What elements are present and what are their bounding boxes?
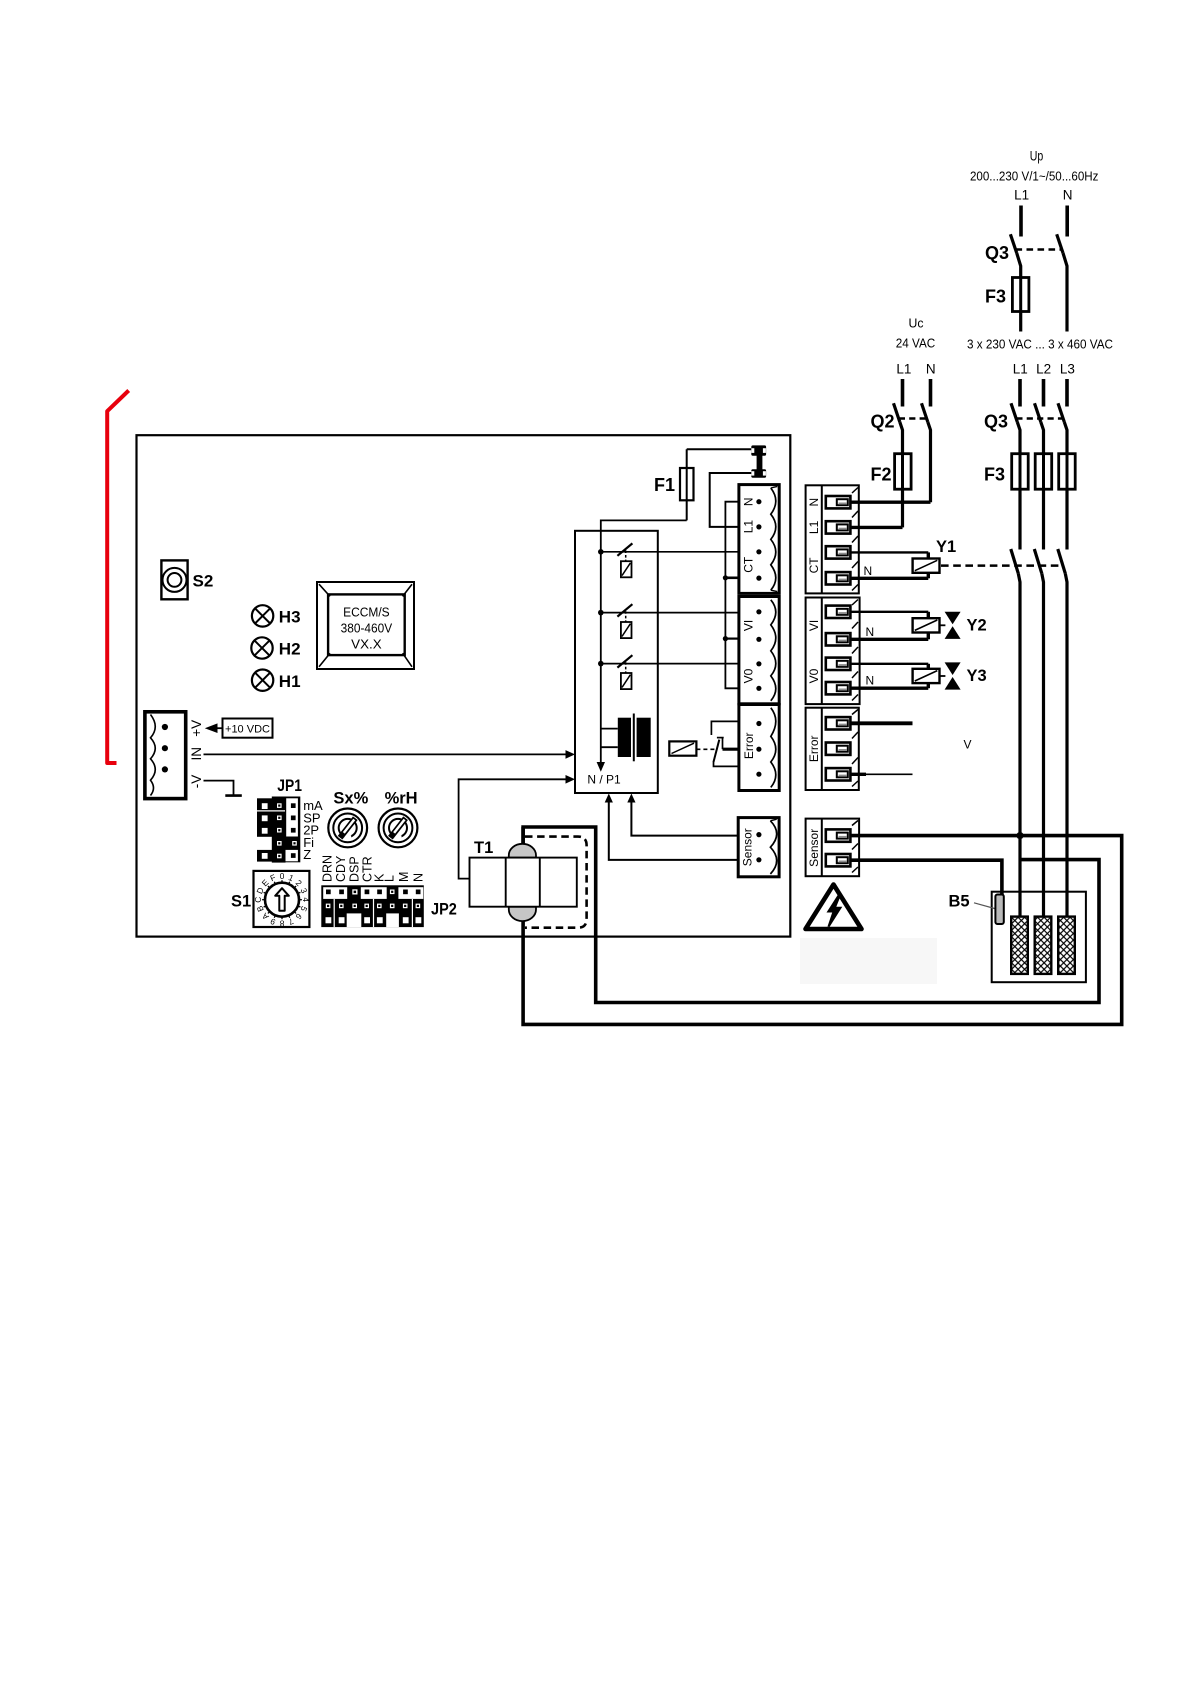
node junction relay 2 bbox=[598, 610, 604, 616]
svg-text:3 x 230 VAC ... 3 x 460 VAC: 3 x 230 VAC ... 3 x 460 VAC bbox=[967, 337, 1113, 352]
net label three phase supply bbox=[967, 337, 1113, 377]
heater element 2 bbox=[1035, 917, 1052, 974]
svg-text:Q2: Q2 bbox=[871, 412, 895, 432]
node CT-N label N bbox=[864, 564, 873, 578]
svg-text:+10 VDC: +10 VDC bbox=[225, 723, 270, 735]
svg-text:N: N bbox=[807, 498, 821, 507]
svg-text:CDY: CDY bbox=[334, 855, 348, 882]
external terminal block Error bbox=[806, 708, 859, 790]
svg-text:F1: F1 bbox=[654, 475, 675, 495]
error relay coil bbox=[669, 741, 716, 755]
node N bus to VI-N bbox=[723, 636, 728, 641]
internal transformer winding bars bbox=[601, 714, 651, 762]
svg-text:Y2: Y2 bbox=[967, 617, 987, 635]
pushbutton S2 bbox=[161, 560, 213, 599]
wire terminal N to Q2 neutral bbox=[850, 501, 930, 504]
svg-text:Sx%: Sx% bbox=[333, 790, 368, 808]
svg-text:Sensor: Sensor bbox=[741, 828, 755, 866]
dashed enclosure around T1 secondary bbox=[525, 837, 587, 928]
external terminal block VI/V0 bbox=[806, 598, 860, 705]
svg-text:8: 8 bbox=[279, 919, 284, 929]
svg-text:ECCM/S: ECCM/S bbox=[343, 605, 390, 620]
sensor wire arrows into switch block bottom bbox=[605, 794, 739, 860]
svg-text:Z: Z bbox=[303, 847, 311, 862]
wire -V with signal ground bar bbox=[204, 781, 242, 796]
svg-text:V0: V0 bbox=[807, 668, 821, 683]
fuse F1 bbox=[654, 449, 694, 520]
heater enclosure box bbox=[992, 892, 1086, 983]
svg-text:B5: B5 bbox=[949, 893, 970, 911]
svg-text:24 VAC: 24 VAC bbox=[896, 336, 936, 351]
svg-text:DRN: DRN bbox=[320, 855, 334, 882]
svg-text:N: N bbox=[412, 873, 426, 882]
wire Up N bbox=[1065, 206, 1069, 237]
mains jumper link to terminal N bbox=[751, 445, 766, 477]
svg-text:L1: L1 bbox=[807, 520, 821, 534]
node junction relay 3 bbox=[598, 661, 604, 667]
module label plate ECCM/S 380-460V VX.X bbox=[317, 582, 414, 669]
lamp H1 bbox=[252, 670, 301, 692]
svg-text:S1: S1 bbox=[231, 893, 251, 911]
svg-text:N: N bbox=[864, 564, 873, 578]
node junction relay 1 bbox=[598, 549, 604, 555]
fuse group F3 three phase bbox=[984, 454, 1075, 550]
svg-text:N: N bbox=[741, 497, 755, 506]
actuator coil Y1 bbox=[913, 538, 957, 578]
svg-text:N: N bbox=[866, 625, 875, 639]
node N bus to CT-N bbox=[723, 575, 728, 580]
wire Uc L1 bbox=[901, 379, 905, 407]
internal terminal block Sensor bbox=[738, 818, 779, 877]
svg-text:N: N bbox=[926, 361, 936, 376]
lamp H3 bbox=[252, 605, 301, 626]
valve actuator Y3 bbox=[913, 662, 987, 689]
svg-text:Error: Error bbox=[807, 735, 821, 762]
node VI-N label N bbox=[866, 625, 875, 639]
net label Uc 24 VAC bbox=[896, 316, 936, 377]
svg-text:V0: V0 bbox=[741, 668, 755, 683]
board outline bbox=[137, 435, 791, 936]
svg-text:Up: Up bbox=[1030, 149, 1044, 164]
faint erased watermark area bbox=[800, 938, 937, 984]
svg-text:F3: F3 bbox=[985, 287, 1006, 307]
svg-text:H2: H2 bbox=[279, 640, 301, 659]
svg-text:L3: L3 bbox=[1060, 361, 1075, 376]
input connector +V / IN / -V bbox=[145, 712, 204, 799]
internal terminal block VI/V0 bbox=[739, 597, 779, 704]
wire terminal VI to Y2 bbox=[850, 611, 928, 613]
svg-text:IN: IN bbox=[189, 747, 204, 761]
svg-text:L1: L1 bbox=[1014, 188, 1029, 203]
wire terminal L1 to F2 bbox=[850, 526, 902, 529]
svg-text:CT: CT bbox=[741, 556, 755, 573]
lamp H2 bbox=[251, 637, 300, 658]
jumper block JP2 bbox=[320, 855, 457, 927]
rotary switch S1 bbox=[231, 871, 311, 929]
wire terminal CT to Y1 bbox=[850, 551, 928, 553]
svg-text:DSP: DSP bbox=[347, 856, 361, 882]
svg-text:H3: H3 bbox=[279, 608, 301, 627]
svg-text:%rH: %rH bbox=[385, 790, 418, 808]
svg-text:N: N bbox=[1063, 188, 1073, 203]
wire T1 secondary top lead bbox=[521, 827, 525, 844]
wire Error output bottom bbox=[850, 773, 912, 776]
wire Error output top bbox=[850, 721, 912, 725]
damper end switch contacts driven by Y1 bbox=[1011, 549, 1067, 917]
svg-text:380-460V: 380-460V bbox=[341, 621, 393, 636]
svg-text:F2: F2 bbox=[871, 465, 892, 485]
wire terminal VI-N to Y2 bbox=[850, 638, 928, 641]
potentiometer %rH bbox=[379, 790, 418, 848]
svg-text:+V: +V bbox=[189, 720, 204, 737]
svg-text:V: V bbox=[964, 738, 972, 752]
svg-text:Y3: Y3 bbox=[967, 667, 987, 685]
switch block N/P1 outline bbox=[575, 531, 658, 793]
svg-text:JP2: JP2 bbox=[431, 901, 457, 919]
svg-text:Sensor: Sensor bbox=[807, 829, 821, 867]
svg-text:L1: L1 bbox=[1013, 361, 1028, 376]
svg-text:CT: CT bbox=[807, 557, 821, 574]
svg-text:200...230 V/1~/50...60Hz: 200...230 V/1~/50...60Hz bbox=[970, 169, 1099, 184]
svg-text:4: 4 bbox=[301, 897, 311, 902]
wire sensor loop through current transformer (outer) bbox=[523, 836, 1122, 1025]
svg-text:Q3: Q3 bbox=[984, 412, 1008, 432]
wire Up L1 bbox=[1019, 206, 1023, 237]
breaker Q3 three phase bbox=[984, 379, 1067, 454]
heater element 1 bbox=[1011, 917, 1028, 974]
wire F1 to mains link bbox=[687, 448, 752, 450]
svg-text:0: 0 bbox=[280, 871, 285, 881]
svg-text:T1: T1 bbox=[474, 839, 493, 857]
svg-text:VX.X: VX.X bbox=[351, 637, 382, 652]
svg-text:N / P1: N / P1 bbox=[587, 773, 621, 787]
svg-text:M: M bbox=[397, 872, 411, 882]
svg-text:C: C bbox=[253, 897, 263, 903]
temperature sensor B5 bbox=[949, 893, 1004, 925]
internal terminal block N/L1/CT bbox=[739, 485, 779, 594]
warning triangle with lightning bolt bbox=[806, 885, 862, 930]
heater element 3 bbox=[1058, 917, 1075, 974]
relay contact K2 (VI output) bbox=[601, 604, 739, 638]
wire IN analog input to switch block bbox=[204, 750, 576, 759]
wire T1 primary from -V/T1 feedback into switch block bbox=[459, 775, 575, 879]
breaker Q2 bbox=[871, 403, 931, 502]
svg-text:L2: L2 bbox=[1036, 361, 1051, 376]
node L1 tap junction bbox=[1016, 832, 1023, 839]
svg-text:L: L bbox=[383, 875, 397, 882]
wire T1 secondary return loop (inner) bbox=[523, 827, 1099, 1003]
svg-text:Y1: Y1 bbox=[936, 538, 956, 556]
red marker bracket bbox=[107, 391, 129, 764]
svg-text:N: N bbox=[866, 674, 875, 688]
net label Up bbox=[970, 149, 1099, 203]
svg-text:-V: -V bbox=[189, 775, 204, 789]
external terminal block N/L1/CT bbox=[806, 485, 859, 593]
wire terminal V0 to Y3 bbox=[850, 663, 928, 665]
wire terminal V0-N to Y3 bbox=[850, 687, 928, 690]
relay contact K1 (CT output) bbox=[601, 543, 739, 577]
wire link to terminal L1 bbox=[710, 473, 752, 527]
external terminal block Sensor bbox=[806, 819, 860, 877]
svg-text:S2: S2 bbox=[193, 572, 214, 591]
internal terminal block Error bbox=[739, 705, 779, 791]
wire terminal CT-N to Y1 bbox=[850, 577, 928, 580]
svg-text:F3: F3 bbox=[984, 465, 1005, 485]
svg-text:Error: Error bbox=[742, 732, 756, 759]
wire sensor lead to B5 bbox=[850, 860, 1002, 894]
svg-text:L1: L1 bbox=[741, 520, 755, 534]
svg-text:Uc: Uc bbox=[909, 316, 924, 331]
svg-text:L1: L1 bbox=[896, 361, 911, 376]
node V0-N label N bbox=[866, 674, 875, 688]
svg-text:JP1: JP1 bbox=[277, 777, 302, 795]
potentiometer Sx% bbox=[328, 790, 368, 848]
fuse F2 bbox=[871, 454, 912, 528]
wire internal N distribution bus bbox=[725, 502, 739, 689]
relay contact K3 (V0 output) bbox=[601, 655, 739, 689]
svg-text:VI: VI bbox=[741, 620, 755, 631]
breaker Q3 single phase bbox=[985, 234, 1067, 331]
+10 VDC reference box with arrow bbox=[205, 719, 273, 738]
valve actuator Y2 bbox=[913, 612, 987, 640]
transformer T1 bbox=[470, 839, 577, 921]
wire Uc N bbox=[929, 379, 933, 407]
node V marker bbox=[964, 738, 972, 752]
dashed mechanical link Y1 to damper contacts bbox=[941, 564, 1063, 567]
error changeover contact bbox=[711, 721, 739, 766]
jumper block JP1 bbox=[257, 777, 323, 863]
svg-text:H1: H1 bbox=[279, 672, 301, 691]
svg-text:Q3: Q3 bbox=[985, 243, 1009, 263]
fuse F3 single phase bbox=[985, 278, 1029, 332]
internal supply bus from F1 bbox=[587, 520, 686, 786]
svg-text:VI: VI bbox=[807, 620, 821, 631]
